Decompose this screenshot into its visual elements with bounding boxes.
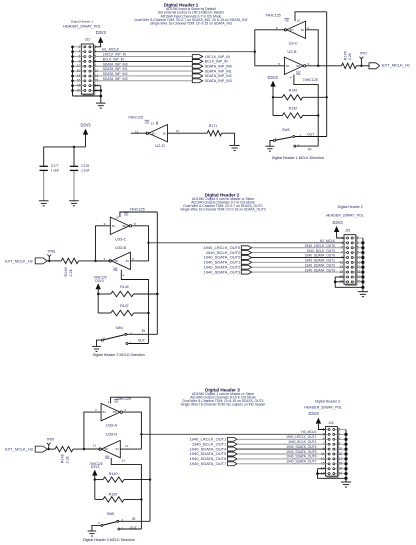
wire 1940_LRCLK_OUT0 to J23 bbox=[252, 244, 344, 248]
svg-text:H3_MCLK: H3_MCLK bbox=[301, 430, 317, 434]
node 1940_SDATA_OUT5 flag bbox=[190, 451, 237, 456]
wire 1940_BCLK_OUT0 to J23 bbox=[252, 249, 344, 253]
node BCLK_INP_IN flag bbox=[192, 59, 228, 63]
svg-text:4: 4 bbox=[290, 76, 292, 80]
svg-text:U2-C: U2-C bbox=[289, 41, 298, 46]
wire 1940_SDATA_OUT0 to J23 bbox=[252, 254, 344, 258]
svg-text:TP69: TP69 bbox=[46, 438, 54, 442]
wire D3V3 to J24 pin 1 bbox=[318, 423, 325, 429]
node 1940_LRCLK_OUT0 flag bbox=[203, 245, 251, 250]
svg-text:OE: OE bbox=[296, 72, 300, 76]
wire OE rail (U2-C / SW5 OUT) bbox=[326, 12, 328, 137]
power D3V3 (decoupling caps) bbox=[80, 123, 91, 147]
svg-text:74HC125: 74HC125 bbox=[128, 116, 143, 120]
node EXT H3 junction bbox=[83, 412, 101, 450]
svg-text:U33-B: U33-B bbox=[115, 245, 127, 250]
resistor R146 2.2k bbox=[61, 258, 109, 276]
svg-text:SDATA_INP_IN0: SDATA_INP_IN0 bbox=[205, 64, 232, 68]
wire U33-C output / H2_MCLK node bbox=[132, 226, 150, 261]
svg-text:9: 9 bbox=[104, 222, 106, 226]
wire BCLK_INP_IN bbox=[94, 57, 193, 61]
wire H2_MCLK to J23 bbox=[149, 242, 345, 244]
svg-text:OE: OE bbox=[285, 19, 289, 23]
svg-text:D3V3: D3V3 bbox=[96, 30, 107, 35]
svg-text:8: 8 bbox=[134, 222, 136, 226]
op-amp U2-B (74HC125 tri-state buffer) bbox=[278, 49, 318, 82]
capacitor C178 1.0uF bbox=[70, 147, 90, 201]
svg-text:1940_SDATA_OUT3: 1940_SDATA_OUT3 bbox=[204, 269, 242, 274]
svg-text:BO: BO bbox=[105, 447, 109, 451]
wire R171 to ground bbox=[222, 133, 235, 145]
svg-text:1940_SDATA_OUT6: 1940_SDATA_OUT6 bbox=[286, 455, 316, 459]
svg-text:1: 1 bbox=[108, 400, 110, 404]
wire U33-D output bbox=[84, 448, 100, 450]
svg-text:B1: B1 bbox=[103, 410, 107, 414]
svg-text:B1: B1 bbox=[126, 259, 130, 263]
svg-text:13: 13 bbox=[150, 121, 154, 125]
svg-text:BO: BO bbox=[152, 131, 156, 135]
svg-text:R171: R171 bbox=[209, 124, 218, 128]
svg-text:R150: R150 bbox=[109, 492, 118, 496]
svg-text:1: 1 bbox=[122, 526, 124, 530]
wire D3V3 to J22 pin 1 bbox=[94, 43, 101, 47]
svg-text:3: 3 bbox=[130, 331, 132, 335]
svg-text:LRCLK_INP_IN: LRCLK_INP_IN bbox=[103, 53, 127, 57]
wire J23 right ground bus bbox=[356, 238, 365, 292]
svg-text:R147: R147 bbox=[120, 304, 129, 308]
op-amp U33-A (74HC125 tri-state buffer) bbox=[95, 397, 131, 437]
wire D3V3 to J23 pin 1 bbox=[337, 232, 344, 238]
svg-text:R142: R142 bbox=[289, 107, 298, 111]
ground (R171) bbox=[230, 145, 240, 150]
svg-text:R143: R143 bbox=[289, 88, 298, 92]
note: section 1 switch caption bbox=[272, 156, 324, 160]
svg-text:U33-C: U33-C bbox=[115, 237, 127, 242]
svg-text:Digital Header 3: Digital Header 3 bbox=[315, 399, 340, 403]
resistor R148 2.2k bbox=[55, 446, 100, 463]
wire 1940_SDATA_OUT4 to J24 bbox=[237, 445, 326, 449]
wire J22 left ground bus bbox=[71, 46, 101, 96]
svg-text:11: 11 bbox=[93, 443, 96, 447]
wire cap rail bbox=[44, 146, 86, 148]
node 1940_BCLK_OUT1 flag bbox=[192, 441, 237, 446]
note: header J24 name labels bbox=[304, 399, 342, 409]
node LRCLK_INP_IN flag bbox=[192, 55, 230, 59]
svg-text:8: 8 bbox=[276, 26, 278, 30]
wire J24 pins 17,19 ground wrap bbox=[316, 469, 346, 479]
svg-text:11: 11 bbox=[135, 129, 138, 133]
wire 1940_SDATA_OUT1 to J23 bbox=[252, 259, 344, 263]
note: H3_MCLK label at J24 bbox=[301, 430, 317, 434]
node SDATA_INP_IN2 flag bbox=[192, 74, 231, 78]
wire U2-D output stub bbox=[131, 132, 148, 134]
test point TP67 bbox=[359, 51, 367, 67]
svg-text:U2-D: U2-D bbox=[155, 143, 164, 148]
svg-text:1: 1 bbox=[94, 45, 96, 49]
ground (SW6) bbox=[88, 531, 97, 536]
svg-text:13: 13 bbox=[121, 459, 125, 463]
ground (C177) bbox=[39, 201, 49, 206]
capacitor C177 1.0uF bbox=[40, 147, 60, 201]
node EXT H2 junction bbox=[94, 226, 110, 262]
wire LRCLK_INP_IN bbox=[94, 53, 193, 57]
svg-text:SW6: SW6 bbox=[107, 512, 114, 516]
svg-text:R149: R149 bbox=[109, 472, 118, 476]
wire U2-D input to R171 bbox=[168, 132, 208, 134]
svg-text:H2_MCLK: H2_MCLK bbox=[320, 239, 336, 243]
op-amp U33-D (74HC125 tri-state buffer) bbox=[93, 440, 129, 462]
wire SW6 pin2 to ground bbox=[92, 525, 101, 531]
svg-text:SW4: SW4 bbox=[116, 326, 123, 330]
svg-text:TP68: TP68 bbox=[47, 249, 55, 253]
svg-text:SDATA_INP_IN3: SDATA_INP_IN3 bbox=[205, 79, 232, 83]
node EXT_MCLK_H2 flag bbox=[5, 258, 47, 264]
wire H3_MCLK to J24 bbox=[141, 433, 325, 435]
note: header J23 name labels bbox=[326, 205, 364, 217]
wire SW4 pin3 to IN rail bbox=[127, 333, 157, 335]
wire U33-B output bbox=[96, 260, 111, 262]
svg-text:B1: B1 bbox=[116, 447, 120, 451]
power D3V3 (pull resistors section 3) bbox=[89, 462, 103, 499]
power D3V3 (pull resistors section 2) bbox=[93, 276, 107, 313]
connector J23 bbox=[339, 229, 360, 286]
wire 1940_LRCLK_OUT1 to J24 bbox=[237, 435, 326, 439]
ground (J22) bbox=[96, 103, 106, 108]
switch SW5 bbox=[273, 128, 314, 152]
note: H2_MCLK label at J23 bbox=[320, 239, 336, 243]
svg-text:SDATA_INP_IN3: SDATA_INP_IN3 bbox=[103, 77, 128, 81]
test point TP69 bbox=[46, 438, 54, 451]
node 1940_SDATA_OUT1 flag bbox=[204, 260, 252, 265]
svg-text:4: 4 bbox=[123, 273, 125, 277]
svg-text:1.0uF: 1.0uF bbox=[81, 169, 89, 173]
svg-text:Digital Header 3 MCLK Directio: Digital Header 3 MCLK Direction bbox=[83, 538, 135, 542]
svg-text:Digital Header 1 MCLK Directio: Digital Header 1 MCLK Direction bbox=[272, 156, 324, 160]
svg-text:B1: B1 bbox=[112, 224, 116, 228]
svg-text:BO: BO bbox=[296, 64, 300, 68]
note: Digital Header 1 title block bbox=[135, 2, 248, 25]
wire H1_MCLK (J22 pin3 to buffers) bbox=[94, 47, 255, 51]
ground (J24) bbox=[341, 482, 351, 487]
ground (SW5) bbox=[266, 146, 275, 151]
switch SW6 bbox=[98, 512, 137, 530]
power D3V3 (J23 pin1) bbox=[332, 220, 343, 232]
node 1940_SDATA_OUT6 flag bbox=[190, 456, 237, 461]
wire U2-C output to H1_MCLK node bbox=[254, 30, 286, 66]
wire 1940_SDATA_OUT5 to J24 bbox=[237, 450, 326, 454]
connector J22 bbox=[77, 38, 99, 96]
svg-text:Single Wire 16-Channel TDM: Ch: Single Wire 16-Channel TDM: Ch 0-15 on S… bbox=[180, 207, 265, 211]
wire SW5 pin3 to OUT rail bbox=[295, 136, 327, 138]
svg-text:R148: R148 bbox=[60, 454, 64, 463]
wire J22 right ground bus (pins 17,19) bbox=[94, 86, 103, 103]
wire J23 pins 17,19 ground wrap bbox=[334, 277, 363, 287]
wire SDATA_INP_IN2 bbox=[94, 72, 193, 76]
svg-text:3: 3 bbox=[323, 432, 325, 436]
svg-text:TP67: TP67 bbox=[359, 51, 367, 55]
connector J24 bbox=[321, 421, 342, 477]
ground (C178) bbox=[69, 201, 79, 206]
wire U2-B output to R145 bbox=[306, 65, 342, 67]
op-amp U2-D (74HC125 spare gate) bbox=[128, 116, 179, 148]
svg-text:1: 1 bbox=[341, 236, 343, 240]
svg-text:Single Wire 16-Channel TDM: No: Single Wire 16-Channel TDM: No outputs o… bbox=[181, 402, 267, 406]
wire SDATA_INP_IN0 bbox=[94, 62, 193, 66]
wire SW5 pin1 to IN rail bbox=[296, 145, 318, 147]
ground (SW4) bbox=[92, 346, 101, 351]
svg-text:D3V3: D3V3 bbox=[95, 279, 104, 283]
svg-text:D3V3: D3V3 bbox=[332, 220, 343, 225]
svg-text:74HC125: 74HC125 bbox=[130, 208, 145, 212]
wire SW4 pin1 to OUT rail bbox=[128, 343, 149, 345]
svg-text:OE: OE bbox=[124, 213, 128, 217]
svg-text:IN: IN bbox=[132, 517, 136, 521]
svg-text:1940_SDATA_OUT7: 1940_SDATA_OUT7 bbox=[190, 461, 228, 466]
switch SW4 bbox=[101, 326, 145, 345]
resistor R142 bbox=[273, 107, 318, 119]
wire 1940_SDATA_OUT6 to J24 bbox=[237, 455, 326, 459]
wire OE rail (U33-C / SW4 IN) bbox=[156, 212, 158, 334]
svg-text:1940_BCLK_OUT1: 1940_BCLK_OUT1 bbox=[288, 440, 317, 444]
svg-text:2.2k: 2.2k bbox=[66, 456, 70, 463]
svg-text:BO: BO bbox=[115, 259, 119, 263]
resistor R143 bbox=[273, 88, 327, 100]
pin 10 enable wire U2-C bbox=[295, 12, 327, 21]
svg-text:J23: J23 bbox=[345, 229, 350, 233]
wire SW4 pin2 to ground bbox=[97, 340, 102, 346]
svg-text:U2-B: U2-B bbox=[287, 49, 296, 54]
op-amp U33-B (74HC125 tri-state buffer) bbox=[104, 252, 135, 277]
node 1940_BCLK_OUT0 flag bbox=[206, 250, 252, 255]
svg-text:Digital Header 2: Digital Header 2 bbox=[338, 205, 363, 209]
resistor R150 bbox=[95, 492, 142, 502]
wire 1940_SDATA_OUT7 to J24 bbox=[237, 460, 326, 464]
svg-text:12: 12 bbox=[176, 129, 180, 133]
ground (J23) bbox=[358, 292, 368, 297]
svg-text:IN: IN bbox=[308, 148, 312, 152]
wire U33-D input bbox=[120, 448, 141, 450]
svg-text:SW5: SW5 bbox=[282, 128, 289, 132]
op-amp U2-C (74HC125 tri-state buffer) bbox=[265, 14, 309, 46]
svg-text:1: 1 bbox=[130, 341, 132, 345]
wire U33-A output / H3_MCLK node bbox=[123, 412, 143, 449]
svg-text:10: 10 bbox=[297, 19, 301, 23]
pin 4 enable wire U33-B bbox=[121, 270, 149, 344]
svg-text:D3V3: D3V3 bbox=[308, 411, 319, 416]
svg-text:OE: OE bbox=[145, 120, 149, 124]
resistor R149 bbox=[95, 472, 150, 482]
wire OE rail (U33-A / SW6 IN) bbox=[149, 397, 151, 521]
note: Digital Header 3 title block bbox=[181, 387, 267, 406]
pin 10 enable wire U33-C bbox=[120, 212, 157, 217]
power D3V3 (pull resistors section 1) bbox=[267, 75, 278, 116]
svg-text:SDATA_INP_IN1: SDATA_INP_IN1 bbox=[205, 69, 232, 73]
svg-text:SDATA_INP_IN2: SDATA_INP_IN2 bbox=[103, 72, 128, 76]
svg-text:D3V3: D3V3 bbox=[91, 465, 100, 469]
svg-text:HEADER_20WAY_POL: HEADER_20WAY_POL bbox=[326, 214, 364, 218]
svg-text:74HC125: 74HC125 bbox=[303, 78, 318, 82]
svg-text:J22: J22 bbox=[85, 38, 90, 42]
svg-text:R146: R146 bbox=[64, 267, 68, 276]
power D3V3 (J24 pin1) bbox=[308, 411, 321, 424]
wire 1940_BCLK_OUT1 to J24 bbox=[237, 440, 326, 444]
svg-text:3: 3 bbox=[299, 134, 301, 138]
wire EXT_MCLK_H2 to R146 bbox=[47, 260, 61, 262]
node SDATA_INP_IN3 flag bbox=[192, 79, 231, 83]
wire J24 right ground bus bbox=[337, 430, 347, 483]
note: Digital Header 2 title block bbox=[180, 193, 265, 212]
svg-text:1940_SDATA_OUT4: 1940_SDATA_OUT4 bbox=[286, 445, 316, 449]
resistor R147 bbox=[98, 304, 148, 316]
svg-text:Single Wire 16-Channel TDM: Ch: Single Wire 16-Channel TDM: Ch 0-15 on S… bbox=[150, 22, 232, 26]
svg-text:B1: B1 bbox=[301, 28, 305, 32]
node 1940_SDATA_OUT3 flag bbox=[204, 269, 252, 274]
svg-text:2: 2 bbox=[103, 336, 105, 340]
svg-text:BO: BO bbox=[122, 224, 126, 228]
wire SDATA_INP_IN3 bbox=[94, 77, 193, 81]
note: header J22 name labels bbox=[63, 19, 101, 28]
node EXT_MCLK_H3 flag bbox=[5, 446, 47, 452]
power D3V3 (J22 pin1) bbox=[96, 30, 107, 43]
pin 1 enable wire U33-A bbox=[111, 397, 150, 403]
svg-text:2: 2 bbox=[95, 408, 97, 412]
resistor R145 2.2k bbox=[342, 51, 370, 68]
svg-text:Digital Header 1: Digital Header 1 bbox=[71, 19, 93, 23]
resistor R171 bbox=[207, 124, 221, 136]
wire EXT_MCLK_H3 to R148 bbox=[47, 448, 55, 450]
svg-text:U33-A: U33-A bbox=[106, 423, 118, 428]
node SDATA_INP_IN0 flag bbox=[192, 64, 231, 68]
svg-text:SDATA_INP_IN0: SDATA_INP_IN0 bbox=[103, 62, 128, 66]
wire U2-B input bbox=[255, 65, 285, 67]
svg-text:BO: BO bbox=[290, 28, 294, 32]
svg-text:B1: B1 bbox=[286, 64, 290, 68]
wire SDATA_INP_IN1 bbox=[94, 67, 193, 71]
svg-text:74HC125: 74HC125 bbox=[265, 14, 280, 18]
svg-text:2: 2 bbox=[98, 521, 100, 525]
svg-text:1.0uF: 1.0uF bbox=[51, 169, 59, 173]
svg-text:2: 2 bbox=[275, 137, 277, 141]
svg-text:EXT_MCLK_H2: EXT_MCLK_H2 bbox=[5, 258, 33, 263]
svg-text:9: 9 bbox=[307, 26, 309, 30]
wire U2-C input to EXT node bbox=[306, 30, 320, 67]
svg-text:6: 6 bbox=[308, 62, 310, 66]
svg-text:IN: IN bbox=[142, 329, 146, 333]
svg-text:OE: OE bbox=[113, 268, 117, 272]
test point TP68 bbox=[47, 249, 55, 262]
svg-text:BCLK_INP_IN: BCLK_INP_IN bbox=[103, 57, 125, 61]
svg-text:HEADER_20WAY_POL: HEADER_20WAY_POL bbox=[304, 405, 342, 409]
svg-text:10: 10 bbox=[115, 216, 119, 220]
svg-text:1: 1 bbox=[323, 427, 325, 431]
svg-text:Digital Header 2 MCLK Directio: Digital Header 2 MCLK Direction bbox=[93, 353, 145, 357]
wire 1940_SDATA_OUT2 to J23 bbox=[252, 263, 344, 267]
note: section 3 switch caption bbox=[83, 538, 135, 542]
pin 4 enable wire U2-B bbox=[294, 75, 320, 147]
op-amp U33-C (74HC125 tri-state buffer) bbox=[104, 208, 145, 250]
svg-text:SDATA_INP_IN1: SDATA_INP_IN1 bbox=[103, 67, 128, 71]
svg-text:R144: R144 bbox=[120, 285, 129, 289]
svg-text:BO: BO bbox=[113, 410, 117, 414]
svg-text:5: 5 bbox=[278, 62, 280, 66]
wire 1940_SDATA_OUT3 to J23 bbox=[252, 268, 344, 272]
svg-text:EXT_MCLK_H3: EXT_MCLK_H3 bbox=[5, 447, 33, 452]
svg-text:3: 3 bbox=[341, 241, 343, 245]
svg-text:D3V3: D3V3 bbox=[80, 123, 91, 128]
wire SW5 pin2 to ground bbox=[270, 141, 274, 147]
svg-text:U33-D: U33-D bbox=[106, 432, 118, 437]
svg-text:OE: OE bbox=[105, 456, 109, 460]
svg-text:2.2k: 2.2k bbox=[69, 269, 73, 276]
svg-text:EXT_MCLK_H1: EXT_MCLK_H1 bbox=[382, 63, 411, 68]
node 1940_LRCLK_OUT1 flag bbox=[189, 437, 237, 442]
resistor R144 bbox=[98, 285, 158, 297]
svg-text:1940_LRCLK_OUT1: 1940_LRCLK_OUT1 bbox=[286, 435, 317, 439]
svg-text:12: 12 bbox=[125, 444, 129, 448]
node 1940_SDATA_OUT7 flag bbox=[190, 461, 237, 466]
svg-text:LRCLK_INP_IN: LRCLK_INP_IN bbox=[205, 55, 231, 59]
svg-text:2.2k: 2.2k bbox=[348, 53, 352, 60]
node EXT_MCLK_H1 flag bbox=[369, 63, 411, 69]
wire U33-B input bbox=[130, 260, 148, 262]
svg-text:D3V3: D3V3 bbox=[267, 75, 278, 80]
node 1940_SDATA_OUT4 flag bbox=[190, 446, 237, 451]
svg-text:1940_SDATA_OUT7: 1940_SDATA_OUT7 bbox=[286, 460, 316, 464]
svg-text:OUT: OUT bbox=[138, 339, 145, 343]
wire SW6 pin3 to IN rail bbox=[119, 520, 150, 522]
svg-text:R145: R145 bbox=[343, 51, 347, 60]
svg-text:OE: OE bbox=[114, 400, 118, 404]
svg-text:1: 1 bbox=[298, 143, 300, 147]
svg-text:H1_MCLK: H1_MCLK bbox=[102, 47, 120, 51]
node SDATA_INP_IN1 flag bbox=[192, 69, 231, 73]
note: section 2 switch caption bbox=[93, 353, 145, 357]
svg-text:C177: C177 bbox=[51, 164, 59, 168]
svg-text:1940_SDATA_OUT5: 1940_SDATA_OUT5 bbox=[286, 450, 316, 454]
svg-text:3: 3 bbox=[124, 408, 126, 412]
node 1940_SDATA_OUT0 flag bbox=[204, 255, 252, 260]
pin 13 enable wire U33-D bbox=[111, 458, 142, 529]
svg-text:SDATA_INP_IN2: SDATA_INP_IN2 bbox=[205, 74, 232, 78]
svg-text:J24: J24 bbox=[328, 421, 333, 425]
svg-text:B1: B1 bbox=[163, 131, 167, 135]
svg-text:BCLK_INP_IN: BCLK_INP_IN bbox=[205, 60, 228, 64]
svg-text:C178: C178 bbox=[81, 164, 89, 168]
svg-text:HEADER_20WAY_POL: HEADER_20WAY_POL bbox=[63, 24, 101, 28]
node 1940_SDATA_OUT2 flag bbox=[204, 264, 252, 269]
wire SW6 pin1 to OUT rail bbox=[120, 528, 141, 530]
